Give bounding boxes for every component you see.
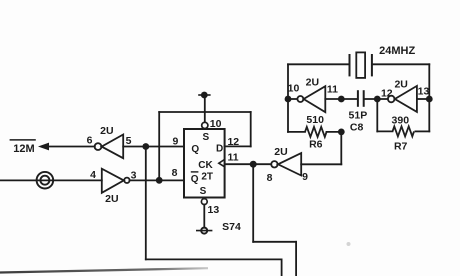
svg-text:D: D [216, 143, 223, 154]
junction oscillator left node [285, 96, 292, 103]
resistor R6 510 [305, 127, 327, 137]
svg-text:24MHZ: 24MHZ [379, 45, 415, 57]
svg-text:2U: 2U [306, 77, 319, 89]
partial box edge bottom left [0, 268, 208, 272]
FF clock edge chevron [219, 159, 225, 166]
svg-text:8: 8 [267, 172, 273, 184]
junction Q net [142, 143, 149, 150]
wire C8 to inverter 2U-e output [365, 98, 388, 100]
svg-text:51P: 51P [349, 109, 368, 121]
oscillator inverter 2U-e pins 13-12 [388, 86, 417, 112]
svg-text:C8: C8 [350, 122, 364, 134]
wire FF pin 10 preset [204, 99, 206, 123]
FF preset bubble pin 10 [202, 122, 208, 128]
junction Qbar-D net [156, 177, 163, 184]
svg-text:11: 11 [327, 84, 338, 96]
junction C8 pin12 node [374, 96, 381, 103]
wire inverter 2U-e input to node [417, 98, 429, 100]
capacitor C8 51P [358, 90, 364, 107]
wire D-to-Qbar feedback vertical right [250, 112, 252, 146]
svg-text:390: 390 [392, 115, 410, 127]
svg-text:12: 12 [381, 88, 393, 100]
wire CK-net bottom run [253, 241, 296, 243]
wire crystal top right [372, 63, 429, 65]
junction pin11 C8 node [338, 96, 345, 103]
junction CK net [250, 161, 257, 168]
wire input from left edge to inverter 2U-b [0, 179, 102, 181]
svg-text:10: 10 [288, 82, 300, 94]
wire CK-net vertical drop [252, 164, 254, 242]
wire Q-net bottom run [146, 258, 282, 260]
wire oscillator left vertical [287, 64, 289, 132]
wire buffer 2U-c input [301, 163, 341, 165]
svg-text:5: 5 [126, 135, 132, 147]
faint scan smudge [347, 242, 351, 246]
wire inverter 2U-d output to node [288, 98, 297, 100]
svg-text:Q: Q [191, 174, 199, 185]
svg-text:13: 13 [418, 85, 430, 97]
svg-text:11: 11 [227, 152, 238, 164]
svg-text:2U: 2U [105, 193, 118, 205]
svg-text:R6: R6 [309, 139, 323, 151]
wire FF pin 12 D [225, 145, 251, 147]
wire oscillator right vertical [428, 64, 430, 131]
oscillator inverter 2U-d pins 11-10 [297, 86, 325, 112]
resistor R7 390 [393, 126, 415, 136]
connector feedthrough on input wire [37, 172, 54, 189]
svg-text:10: 10 [210, 118, 222, 130]
wire FF pin 13 clear [203, 205, 205, 228]
wire inverter 2U-b output to FF pin 8 [130, 179, 184, 181]
wire R6 left lead [288, 131, 305, 133]
svg-text:Q: Q [191, 144, 199, 155]
junction R6 buffer node [338, 129, 345, 136]
svg-text:9: 9 [172, 136, 178, 148]
wire R6 right lead [327, 131, 342, 133]
inverter 2U-b pins 4-3 [102, 169, 130, 193]
wire Q-net to bottom edge [281, 259, 283, 276]
svg-text:8: 8 [172, 167, 178, 179]
crystal Y1 24MHZ [350, 52, 372, 78]
wire inverter 2U-d input to C8 [325, 98, 357, 100]
wire R7 left riser [376, 99, 378, 131]
arrow head on 12M output [38, 143, 49, 151]
svg-text:12M: 12M [13, 143, 34, 155]
wire CK-net to bottom edge [295, 242, 297, 276]
svg-text:510: 510 [306, 114, 324, 126]
wire D-to-Qbar feedback vertical left [158, 112, 160, 180]
svg-text:S: S [202, 132, 209, 143]
svg-text:6: 6 [87, 135, 93, 147]
svg-text:9: 9 [302, 171, 308, 183]
junction crystal R7 node [426, 96, 433, 103]
buffer inverter 2U-c pins 9-8 [271, 153, 301, 175]
label 12M with overline [10, 140, 36, 155]
svg-text:12: 12 [227, 136, 239, 148]
terminal on clear net [196, 228, 212, 234]
svg-text:13: 13 [208, 204, 220, 216]
svg-text:3: 3 [131, 170, 137, 182]
svg-text:R7: R7 [394, 141, 408, 153]
svg-text:S: S [200, 186, 207, 197]
svg-text:2U: 2U [274, 146, 287, 158]
svg-text:CK: CK [198, 160, 213, 171]
wire Q-net vertical drop [145, 147, 147, 260]
FF label Qbar [191, 172, 199, 185]
wire R7 left lead [377, 130, 392, 132]
flip-flop U2T S74 box [184, 129, 225, 198]
wire FF pin 11 CK from buffer [225, 163, 272, 165]
svg-text:2U: 2U [100, 125, 113, 137]
terminal on preset net [198, 92, 210, 99]
wire D-to-Qbar feedback top run [159, 111, 251, 113]
wire 12M output line [49, 146, 95, 148]
svg-text:2T: 2T [201, 172, 213, 183]
svg-text:S74: S74 [222, 221, 241, 233]
svg-text:4: 4 [90, 169, 96, 181]
wire crystal top left [288, 63, 350, 65]
svg-text:2U: 2U [394, 79, 407, 91]
FF clear bubble pin 13 [201, 199, 207, 205]
wire R7 right lead [415, 130, 429, 132]
wire buffer input riser to R6 node [340, 132, 342, 164]
wire inverter 2U-a input to FF pin 9 [123, 146, 184, 148]
inverter 2U-a pins 5-6 [95, 135, 124, 159]
